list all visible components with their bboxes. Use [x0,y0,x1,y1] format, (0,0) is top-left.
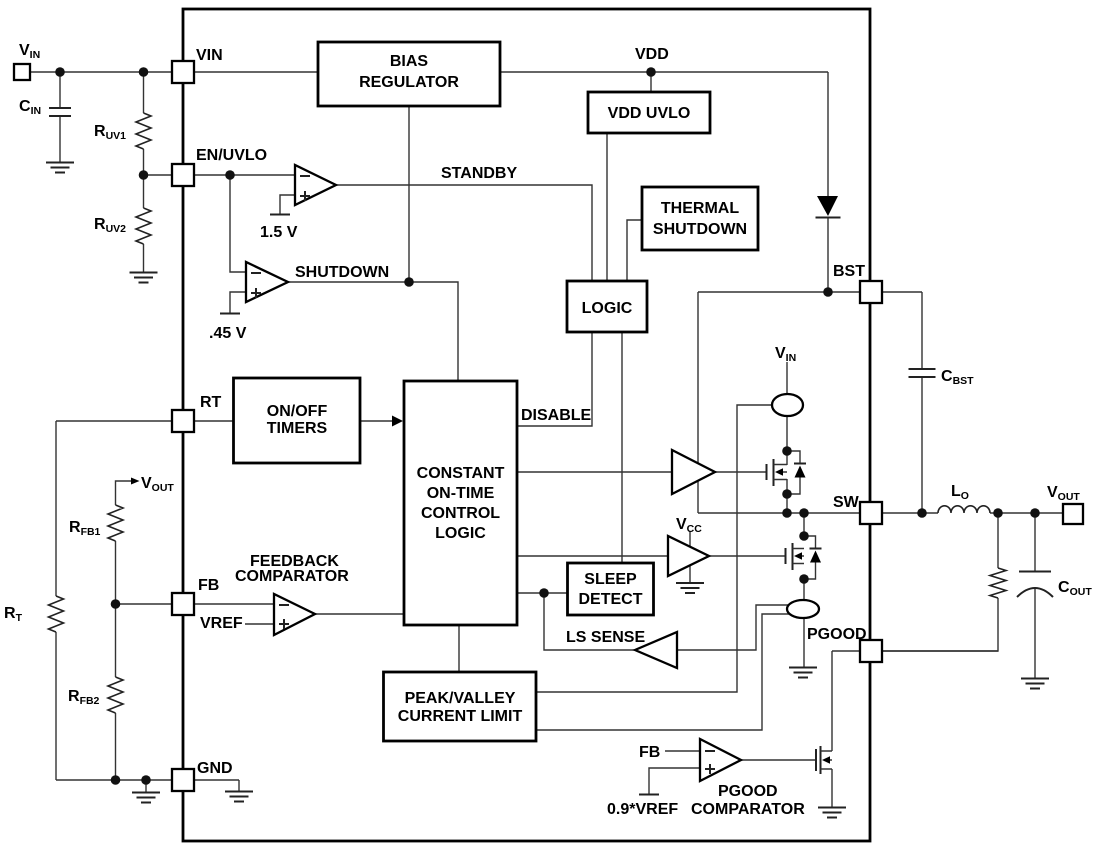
svg-text:PGOOD: PGOOD [807,626,867,643]
resistor RUV2 [136,208,151,244]
wire diode leads [827,72,829,292]
wire HS FET drain/source [786,451,788,513]
arrowhead timers to COT [392,416,403,427]
terminal VIN input [14,64,30,80]
svg-text:LOGIC: LOGIC [435,525,486,542]
wire THERMAL SHUTDOWN to LOGIC [627,220,642,281]
capacitor CBST [909,369,936,377]
capacitor CIN [49,108,71,116]
wire RT [56,420,233,422]
transistor Q3 PGOOD open-drain NFET [816,746,832,774]
block VDD UVLO [588,92,710,133]
svg-text:DISABLE: DISABLE [521,407,592,424]
wire SW line [698,512,1063,514]
symbol plus comparator1 [300,191,310,201]
block PEAK/VALLEY CURRENT LIMIT [384,672,537,741]
node EN comparator dot [225,170,235,180]
resistor RFB1 [108,505,123,541]
svg-text:1.5 V: 1.5 V [260,224,298,241]
block THERMAL SHUTDOWN [642,187,758,250]
node EN pin dot [139,170,149,180]
symbol minus comparator2 [251,272,261,274]
svg-text:VDD: VDD [635,46,669,63]
buffer U4 high-side driver [672,450,715,494]
node VIN rail dot 1 [55,67,65,77]
pin EN/UVLO [172,164,194,186]
block LOGIC [567,281,647,332]
wire timers to COT logic [360,420,394,422]
pin RT [172,410,194,432]
svg-text:VREF: VREF [200,615,243,632]
wire HS driver to HS FET gate [715,471,766,473]
wire COT logic to HS driver [517,471,672,473]
wire VDD UVLO to LOGIC [606,133,608,281]
node RFB2 bottom dot [111,775,121,785]
svg-text:CURRENT LIMIT: CURRENT LIMIT [398,708,523,725]
node ground rail dot [141,775,151,785]
svg-text:FB: FB [639,744,660,761]
wire RFB1 to FB pin [116,541,275,604]
terminal VOUT output [1063,504,1083,524]
transistor Q1 high-side NFET [767,451,807,494]
svg-text:SHUTDOWN: SHUTDOWN [295,264,389,281]
arrowhead VOUT left [131,478,140,485]
wire LS sense to PEAK/VALLEY [536,614,790,730]
wire RUV1 leads [143,72,145,175]
ground CIN [46,163,74,173]
source 0.9*VREF bar [639,794,659,796]
wire comparator2 plus input to .45V [230,292,246,313]
wire VREF to feedback comparator [245,623,274,625]
node Q1 drain dot [782,446,792,456]
svg-text:PEAK/VALLEY: PEAK/VALLEY [405,690,516,707]
pin BST [860,281,882,303]
node VIN rail dot 2 [139,67,149,77]
svg-text:ON-TIME: ON-TIME [427,485,495,502]
svg-text:REGULATOR: REGULATOR [359,74,459,91]
svg-text:SW: SW [833,494,860,511]
svg-text:0.9*VREF: 0.9*VREF [607,801,678,818]
svg-text:COMPARATOR: COMPARATOR [235,568,349,585]
wire PGOOD FET drain [831,651,833,751]
wire LS driver to LS FET gate [709,555,785,557]
pin FB [172,593,194,615]
wire 0.9*VREF to PGOOD comparator [649,768,700,794]
wire PGOOD comparator output [741,759,816,761]
current sense ellipse high-side [772,394,803,416]
wire VOUT arrow riser [116,481,133,505]
wire SW to LS FET drain [803,513,805,536]
ground GND pin [225,792,253,802]
node BST dot [823,287,833,297]
wire load resistor branch to PGOOD [882,513,998,651]
wire HS sense to PEAK/VALLEY [536,405,772,692]
wire LOGIC to SLEEP DETECT [621,332,623,563]
source 1.5V bar [270,214,290,216]
wire LS FET source to sense ellipse and ground [803,579,805,667]
buffer U5 low-side driver [668,536,709,576]
wire BST horizontal [698,291,922,293]
wire RUV2 leads [143,175,145,272]
resistor load [990,568,1006,598]
resistor RUV1 [136,113,151,149]
wire VIN rail from VIN terminal to BIAS REGULATOR [29,71,318,73]
wire BIAS REGULATOR to shutdown node [408,106,410,282]
svg-text:TIMERS: TIMERS [267,420,328,437]
symbol minus comparator1 [300,175,310,177]
wire feedback comparator output [315,613,404,615]
svg-text:LOGIC: LOGIC [582,300,633,317]
block BIAS REGULATOR [318,42,500,106]
wire FB stub to PGOOD comparator [665,750,700,752]
node SW dot 1 [782,508,792,518]
pin GND [172,769,194,791]
wire internal VIN stub to HS FET [786,362,788,451]
wire RFB2 leads [115,604,117,780]
wire COT logic to PEAK/VALLEY [458,625,460,672]
node Q2 drain dot [799,531,809,541]
inductor LO [938,506,990,513]
comparator U2 shutdown [246,262,288,302]
wire RT resistor leads [55,421,57,780]
svg-text:CONSTANT: CONSTANT [417,465,505,482]
wire PGOOD FET source to ground [831,769,833,807]
wire bottom ground rail [56,780,239,791]
wire comparator1 plus input to 1.5V [280,195,295,214]
wire EN/UVLO to comparator [144,174,296,176]
wire ground stub [145,780,147,792]
op-amp U3 feedback comparator [274,594,315,635]
node VDD dot [646,67,656,77]
ground RUV2 [130,273,158,283]
wire PGOOD line [832,650,998,652]
node Q2 source dot [799,574,809,584]
svg-text:FB: FB [198,577,219,594]
ground bottom left [132,793,160,803]
wire DISABLE [517,332,592,426]
ground LS driver [676,583,704,593]
node CBST SW dot [917,508,927,518]
wire COT logic to LS driver [517,555,668,557]
buffer U6 LS SENSE [635,632,677,668]
svg-text:SLEEP: SLEEP [584,571,637,588]
block SLEEP DETECT [568,563,654,615]
wire COT logic to SLEEP DETECT [517,592,567,594]
wire VDD to VDD UVLO [650,72,652,92]
node sleep branch dot [539,588,549,598]
wire LS SENSE input to LS current sense [677,605,788,650]
ground PGOOD FET [818,808,846,818]
svg-text:PGOOD: PGOOD [718,783,778,800]
IC boundary [183,9,870,841]
resistor RT [49,596,64,632]
svg-text:DETECT: DETECT [579,591,643,608]
svg-text:VIN: VIN [196,47,223,64]
node COUT dot [1030,508,1040,518]
capacitor COUT [1017,572,1053,598]
svg-text:.45 V: .45 V [209,325,247,342]
svg-text:BST: BST [833,263,865,280]
symbol minus feedback comparator [279,604,289,606]
transistor Q2 low-side NFET [786,536,822,579]
ground COUT [1021,679,1049,689]
svg-text:RT: RT [200,394,222,411]
svg-text:EN/UVLO: EN/UVLO [196,147,267,164]
block CONSTANT ON-TIME CONTROL LOGIC [404,381,517,625]
diode D1 VDD to BST [816,196,841,218]
wire sleep node to LS SENSE output [544,593,635,650]
comparator U7 PGOOD [700,739,741,781]
svg-text:BIAS: BIAS [390,53,429,70]
node FB dot [111,599,121,609]
block ON/OFF TIMERS [234,378,361,463]
svg-text:COMPARATOR: COMPARATOR [691,801,805,818]
wire VDD rail [500,71,828,73]
symbol plus comparator2 [251,288,261,298]
source .45V bar [220,313,240,315]
svg-text:LS SENSE: LS SENSE [566,629,645,646]
node SW dot 2 [799,508,809,518]
ground LS sense [789,668,817,678]
symbol plus PGOOD comparator [705,764,715,774]
svg-text:SHUTDOWN: SHUTDOWN [653,221,747,238]
wire CIN branch [59,72,61,162]
svg-text:ON/OFF: ON/OFF [267,403,328,420]
symbol minus PGOOD comparator [705,750,715,752]
current sense ellipse low-side [787,600,819,618]
pin PGOOD [860,640,882,662]
wire CBST leads [921,292,923,513]
wire EN branch to shutdown comparator [230,175,246,272]
pin VIN [172,61,194,83]
wire STANDBY [336,185,592,281]
svg-text:CONTROL: CONTROL [421,505,500,522]
comparator U1 standby [295,165,336,205]
svg-text:THERMAL: THERMAL [661,200,739,217]
svg-text:VDD UVLO: VDD UVLO [608,105,691,122]
wire SHUTDOWN [288,282,458,381]
node load dot [993,508,1003,518]
pin SW [860,502,882,524]
node Q1 source dot [782,489,792,499]
symbol plus feedback comparator [279,619,289,629]
node SHUTDOWN dot [404,277,414,287]
resistor RFB2 [108,677,123,713]
wire VCC stub through LS driver to ground [689,531,691,582]
wire COUT branch [1034,513,1036,678]
svg-text:STANDBY: STANDBY [441,165,517,182]
svg-text:GND: GND [197,760,233,777]
wire BST vertical to HS driver [697,292,699,513]
